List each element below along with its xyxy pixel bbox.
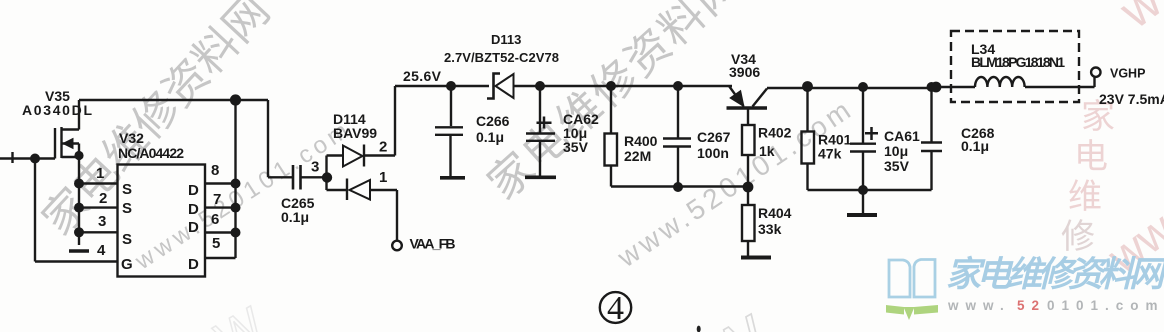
svg-text:0.1μ: 0.1μ	[281, 209, 309, 225]
svg-text:W: W	[695, 303, 781, 332]
svg-text:CA61: CA61	[884, 128, 920, 144]
svg-text:D: D	[188, 182, 199, 199]
svg-text:10μ: 10μ	[884, 143, 908, 159]
svg-text:C266: C266	[476, 113, 510, 129]
svg-text:www.520101.com: www.520101.com	[611, 92, 859, 273]
svg-text:8: 8	[211, 162, 219, 179]
svg-text:BLM18PG1818N1: BLM18PG1818N1	[971, 54, 1065, 70]
svg-text:S: S	[122, 200, 132, 217]
svg-text:35V: 35V	[563, 139, 589, 155]
svg-text:7: 7	[213, 191, 221, 208]
svg-text:D: D	[188, 219, 199, 236]
svg-text:25.6V: 25.6V	[403, 68, 442, 84]
svg-text:3: 3	[311, 159, 319, 176]
svg-text:D: D	[188, 201, 199, 218]
svg-text:S: S	[122, 181, 132, 198]
svg-text:47k: 47k	[818, 146, 842, 162]
svg-text:22M: 22M	[624, 148, 651, 164]
svg-text:C267: C267	[697, 129, 731, 145]
svg-text:D: D	[188, 256, 199, 273]
svg-text:修: 修	[1061, 218, 1095, 256]
svg-text:R404: R404	[758, 205, 792, 221]
svg-text:2: 2	[99, 190, 107, 207]
svg-text:电: 电	[1074, 138, 1108, 176]
svg-text:www.: www.	[947, 298, 1011, 313]
svg-text:w: w	[1109, 0, 1164, 39]
svg-text:100n: 100n	[697, 145, 729, 161]
svg-text:D113: D113	[491, 32, 521, 47]
svg-text:VAA_FB: VAA_FB	[410, 236, 456, 252]
svg-text:6: 6	[211, 211, 219, 228]
svg-text:1k: 1k	[759, 143, 775, 159]
svg-text:0.1μ: 0.1μ	[476, 129, 504, 145]
svg-text:W: W	[207, 298, 273, 332]
svg-text:52: 52	[1017, 298, 1046, 313]
svg-text:G: G	[121, 256, 133, 273]
svg-text:A0340DL: A0340DL	[22, 102, 92, 118]
svg-text:33k: 33k	[758, 221, 782, 237]
svg-text:S: S	[122, 231, 132, 248]
svg-text:1: 1	[96, 165, 104, 182]
svg-text:BAV99: BAV99	[333, 125, 377, 141]
svg-text:V32: V32	[119, 130, 144, 146]
svg-text:0.1μ: 0.1μ	[961, 138, 989, 154]
svg-text:VGHP: VGHP	[1110, 67, 1145, 81]
svg-text:0101.com: 0101.com	[1047, 298, 1164, 313]
svg-text:维: 维	[1068, 178, 1102, 216]
svg-text:2.7V/BZT52-C2V78: 2.7V/BZT52-C2V78	[444, 50, 559, 65]
svg-text:4: 4	[97, 242, 106, 259]
svg-text:4: 4	[607, 290, 624, 327]
svg-text:3: 3	[98, 213, 106, 230]
svg-text:5: 5	[212, 235, 220, 252]
svg-text:R402: R402	[758, 125, 792, 141]
svg-text:23V 7.5mA: 23V 7.5mA	[1099, 91, 1164, 107]
svg-text:家电维修资料网: 家电维修资料网	[946, 255, 1164, 294]
svg-text:3906: 3906	[729, 64, 760, 80]
svg-text:2: 2	[379, 139, 387, 156]
svg-text:1: 1	[379, 169, 387, 186]
svg-text:R400: R400	[624, 133, 658, 149]
svg-text:NC/A04422: NC/A04422	[118, 145, 184, 161]
svg-text:35V: 35V	[884, 158, 910, 174]
